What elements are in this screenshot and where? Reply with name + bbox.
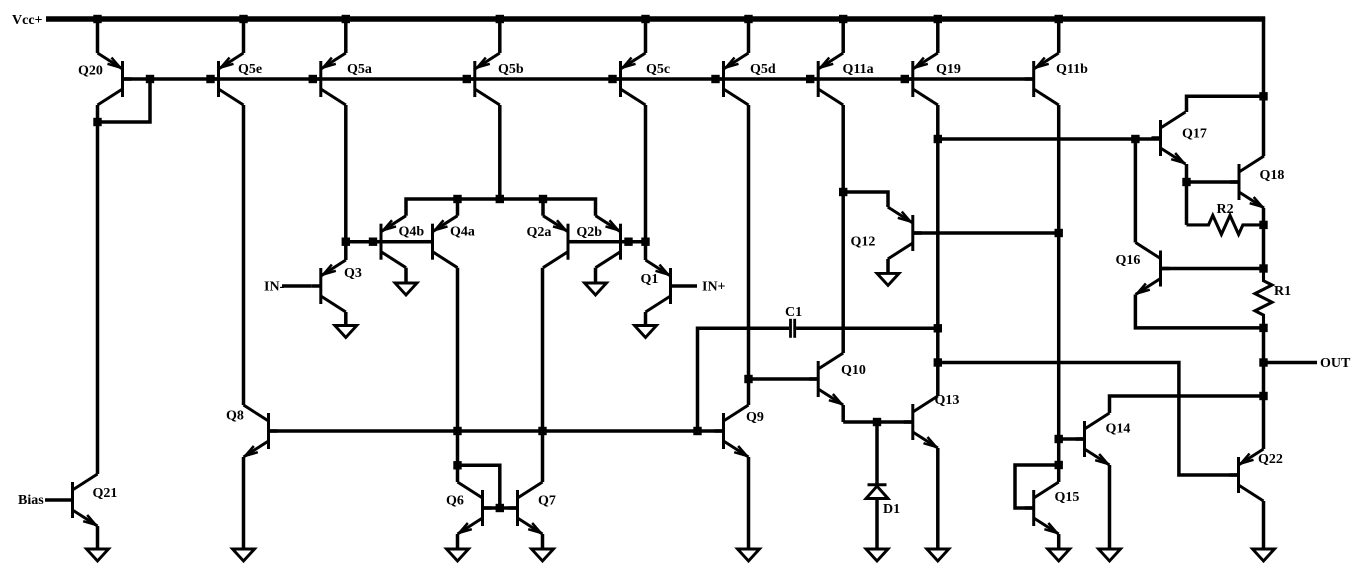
ground Q4b	[395, 283, 417, 295]
wire Q2a emitter	[541, 199, 545, 216]
transistor Q14	[1083, 421, 1086, 457]
svg-text:Q20: Q20	[78, 64, 103, 79]
svg-text:Q13: Q13	[935, 393, 960, 408]
ground Q8	[233, 549, 255, 561]
wire Q6 collector tie to bases	[458, 465, 500, 508]
wire Q19 emitter to rail	[936, 19, 940, 53]
transistor Q15	[1032, 490, 1035, 526]
wire Q1 collector down	[644, 312, 648, 326]
transistor Q12	[911, 215, 914, 251]
wire Vcc+ power rail	[46, 16, 1265, 22]
wire Q14 collector line	[1110, 396, 1264, 413]
wire Q10 emitter to Q13 base	[843, 420, 913, 424]
ground Q14	[1099, 549, 1121, 561]
junction node B	[641, 238, 649, 246]
junction Q19 collector node	[934, 135, 942, 143]
svg-text:Vcc+: Vcc+	[12, 13, 43, 28]
wire Q11b emitter to rail	[1057, 19, 1061, 53]
junction Q6 collector tie	[453, 461, 461, 469]
ground Q15	[1048, 549, 1070, 561]
wire Q5e emitter to rail	[242, 19, 246, 53]
junction Q10 base node	[744, 375, 752, 383]
wire Q5a collector down	[344, 105, 348, 242]
junction base bus tie	[146, 75, 154, 83]
wire PNP base bus	[123, 77, 1034, 81]
transistor Q16	[1159, 251, 1162, 287]
wire Q22 collector down	[1262, 501, 1266, 549]
wire R2 left drop	[1185, 182, 1189, 225]
wire Q2 base link	[568, 240, 646, 244]
wire input-stage top rail	[406, 199, 596, 216]
wire Q13 collector to Q22 base	[938, 363, 1239, 476]
svg-text:Q6: Q6	[446, 494, 464, 509]
wire Q15 emitter down	[1057, 534, 1061, 549]
transistor Q18	[1238, 164, 1241, 200]
svg-text:Q21: Q21	[93, 486, 118, 501]
svg-text:Q2a: Q2a	[527, 225, 552, 240]
junction Q8 base line at Q7	[538, 427, 546, 435]
wire Q9 emitter down	[747, 457, 751, 549]
wire Q5c collector down	[644, 105, 648, 242]
junction Q5e emitter at rail	[239, 15, 247, 23]
junction base bus	[806, 75, 814, 83]
svg-text:R1: R1	[1274, 284, 1291, 299]
wire Q14 emitter down	[1108, 465, 1112, 549]
wire Q20 collector down	[96, 105, 100, 474]
junction Q11a emitter at rail	[839, 15, 847, 23]
junction Q2a emitter	[539, 195, 547, 203]
transistor Q5e	[217, 61, 220, 97]
wire Q16 base	[1161, 267, 1264, 271]
wire Q18 emitter down	[1262, 208, 1266, 225]
diode D1	[875, 422, 879, 485]
svg-text:Q11b: Q11b	[1056, 62, 1088, 77]
wire Q13 emitter down	[936, 448, 940, 549]
transistor Q20	[121, 61, 124, 97]
svg-text:Q16: Q16	[1116, 253, 1141, 268]
ground Q13	[927, 549, 949, 561]
junction Q6/Q7 base	[496, 504, 504, 512]
wire Q11b collector down	[1057, 105, 1061, 482]
wire Q4b collector down	[404, 268, 408, 283]
junction Q12 base node	[1055, 229, 1063, 237]
junction Q2b base	[624, 238, 632, 246]
transistor Q8	[267, 413, 270, 449]
transistor Q5a	[319, 61, 322, 97]
wire Q5c emitter to rail	[644, 19, 648, 53]
svg-text:IN+: IN+	[702, 280, 726, 295]
transistor Q11a	[817, 61, 820, 97]
wire Q4a collector down	[456, 268, 460, 482]
junction Q14 base node	[1055, 435, 1063, 443]
transistor Q22	[1237, 457, 1240, 493]
svg-text:D1: D1	[883, 502, 900, 517]
junction OUT node	[1259, 358, 1267, 366]
wire Q1 emitter up	[644, 242, 648, 260]
wire Q16 collector up	[1134, 139, 1138, 243]
wire Q19 collector to Q17 base	[938, 137, 1161, 141]
svg-text:Q17: Q17	[1182, 127, 1207, 142]
wire Q6 emitter down	[456, 534, 460, 549]
wire Q12 emitter	[843, 192, 888, 207]
svg-text:Q10: Q10	[841, 363, 866, 378]
wire Bias to Q21 base	[45, 498, 64, 502]
svg-text:IN-: IN-	[264, 280, 285, 295]
transistor Q10	[817, 361, 820, 397]
wire Q14 base	[1059, 437, 1085, 441]
junction Q9 base node	[693, 427, 701, 435]
transistor Q4a	[431, 224, 434, 260]
junction Q17 base node	[1131, 135, 1139, 143]
junction R2 right	[1259, 221, 1267, 229]
wire Q21 emitter down	[96, 526, 100, 549]
ground Q1	[635, 326, 657, 338]
transistor Q7	[516, 490, 519, 526]
svg-text:Q3: Q3	[344, 266, 362, 281]
wire Q8 emitter down	[242, 457, 246, 549]
junction node A	[342, 238, 350, 246]
svg-text:Q2b: Q2b	[576, 225, 602, 240]
transistor Q11b	[1032, 61, 1035, 97]
junction base bus	[711, 75, 719, 83]
junction base bus	[608, 75, 616, 83]
wire Q6 base to Q7 base	[483, 506, 518, 510]
svg-text:C1: C1	[785, 305, 802, 320]
svg-text:R2: R2	[1217, 202, 1234, 217]
junction Q5b emitter at rail	[496, 15, 504, 23]
wire Q20 emitter to rail	[96, 19, 100, 53]
wire Q5b emitter to rail	[498, 19, 502, 53]
transistor Q6	[481, 490, 484, 526]
svg-text:OUT: OUT	[1320, 356, 1351, 371]
resistor R1	[1255, 269, 1272, 328]
svg-text:Q1: Q1	[641, 272, 659, 287]
capacitor C1	[789, 319, 792, 338]
wire Q12 base	[913, 231, 1059, 235]
svg-text:Q5b: Q5b	[498, 62, 524, 77]
junction Q19 emitter at rail	[934, 15, 942, 23]
wire Q1 base to IN+	[680, 284, 698, 288]
wire Q18 collector up	[1262, 96, 1266, 156]
junction Q14 collector node	[1259, 392, 1267, 400]
wire Q11a collector down	[841, 105, 845, 353]
junction Q4a emitter	[453, 195, 461, 203]
wire Q8 base to Q9 base	[269, 429, 724, 433]
junction base bus	[309, 75, 317, 83]
svg-text:Q5d: Q5d	[750, 62, 776, 77]
transistor Q2b	[619, 224, 622, 260]
junction Q5b collector	[496, 195, 504, 203]
wire Q5d collector down	[747, 105, 751, 405]
transistor Q4b	[380, 224, 383, 260]
wire Q20 base-collector tie	[98, 79, 151, 122]
svg-text:Q18: Q18	[1260, 168, 1285, 183]
wire OUT down	[1262, 363, 1266, 397]
wire OUT to Q22 emitter	[1262, 396, 1266, 449]
svg-text:Q5c: Q5c	[646, 62, 670, 77]
wire Q7 emitter down	[541, 534, 545, 549]
svg-text:Q9: Q9	[746, 410, 764, 425]
ground D1	[866, 549, 888, 561]
wire Q5b collector down	[498, 105, 502, 199]
wire Q5e collector down	[242, 105, 246, 405]
wire Q17 emitter down	[1185, 164, 1189, 182]
svg-text:Q14: Q14	[1106, 422, 1131, 437]
svg-text:Q22: Q22	[1258, 452, 1283, 467]
wire Q17 collector	[1187, 96, 1264, 112]
junction Q8 base line at Q6	[453, 427, 461, 435]
transistor Q13	[911, 404, 914, 440]
wire Q11a emitter to rail	[841, 19, 845, 53]
junction Q13 collector node	[934, 358, 942, 366]
transistor Q3	[319, 268, 322, 304]
junction Q4b base	[369, 238, 377, 246]
wire OUT stub	[1264, 361, 1318, 365]
transistor Q21	[71, 482, 74, 518]
wire Q3 emitter up	[344, 242, 348, 260]
junction Q17 emitter node	[1182, 178, 1190, 186]
wire Q15 base loop	[1015, 465, 1059, 508]
junction Q5c emitter at rail	[641, 15, 649, 23]
svg-text:Q15: Q15	[1055, 490, 1080, 505]
svg-text:Q4a: Q4a	[450, 225, 475, 240]
svg-text:Q5e: Q5e	[238, 62, 262, 77]
svg-text:Q19: Q19	[936, 62, 961, 77]
wire Q2a collector down	[541, 268, 545, 482]
wire Q12 collector down	[886, 259, 890, 273]
wire Q10 emitter down	[841, 405, 845, 422]
ground Q2b	[585, 283, 607, 295]
svg-text:Q7: Q7	[538, 494, 556, 509]
transistor Q5b	[473, 61, 476, 97]
junction R1 top	[1259, 264, 1267, 272]
junction Q20 emitter at rail	[93, 15, 101, 23]
wire right rail drop	[1262, 17, 1266, 97]
svg-text:Q8: Q8	[226, 409, 244, 424]
transistor Q9	[722, 413, 725, 449]
junction D1 node	[873, 418, 881, 426]
wire Q5a emitter to rail	[344, 19, 348, 53]
transistor Q5d	[722, 61, 725, 97]
ground Q3	[335, 326, 357, 338]
ground Q12	[877, 273, 899, 285]
junction R1 bottom	[1259, 324, 1267, 332]
svg-text:Bias: Bias	[18, 493, 44, 508]
junction base bus	[206, 75, 214, 83]
wire C1 left	[698, 328, 790, 431]
wire IN- to Q3 base	[282, 284, 312, 288]
wire Q3 collector down	[344, 312, 348, 326]
svg-text:Q12: Q12	[851, 235, 876, 250]
wire Q16 emitter	[1135, 295, 1263, 328]
wire C1 right	[796, 327, 938, 331]
transistor Q17	[1159, 120, 1162, 156]
junction base bus	[901, 75, 909, 83]
wire Q17 emitter to Q18 base	[1187, 180, 1240, 184]
transistor Q19	[911, 61, 914, 97]
junction C1 right	[934, 324, 942, 332]
ground Q22	[1253, 549, 1275, 561]
ground Q9	[738, 549, 760, 561]
wire R1 bottom to OUT	[1262, 328, 1266, 363]
svg-text:Q11a: Q11a	[843, 62, 874, 77]
wire Q10 base	[749, 377, 819, 381]
wire Q5d emitter to rail	[747, 19, 751, 53]
wire Q4a emitter	[456, 199, 460, 216]
junction Q5a emitter at rail	[342, 15, 350, 23]
transistor Q5c	[619, 61, 622, 97]
junction Q11b emitter at rail	[1055, 15, 1063, 23]
resistor R2	[1187, 215, 1264, 234]
junction Q12 emitter node	[839, 188, 847, 196]
ground Q7	[532, 549, 554, 561]
wire Q4 base link	[346, 240, 433, 244]
junction Q17 collector node	[1259, 92, 1267, 100]
junction Q5d emitter at rail	[744, 15, 752, 23]
transistor Q2a	[567, 224, 570, 260]
svg-text:Q5a: Q5a	[347, 62, 372, 77]
transistor Q1	[669, 268, 672, 304]
junction Q20 collector tie	[93, 118, 101, 126]
junction base bus	[463, 75, 471, 83]
wire Q2b collector down	[594, 268, 598, 283]
wire R2 to R1	[1262, 225, 1266, 269]
junction Q15 collector node	[1055, 461, 1063, 469]
ground Q6	[447, 549, 469, 561]
svg-text:Q4b: Q4b	[399, 225, 425, 240]
ground Q21	[87, 549, 109, 561]
wire Q19 collector down	[936, 105, 940, 396]
